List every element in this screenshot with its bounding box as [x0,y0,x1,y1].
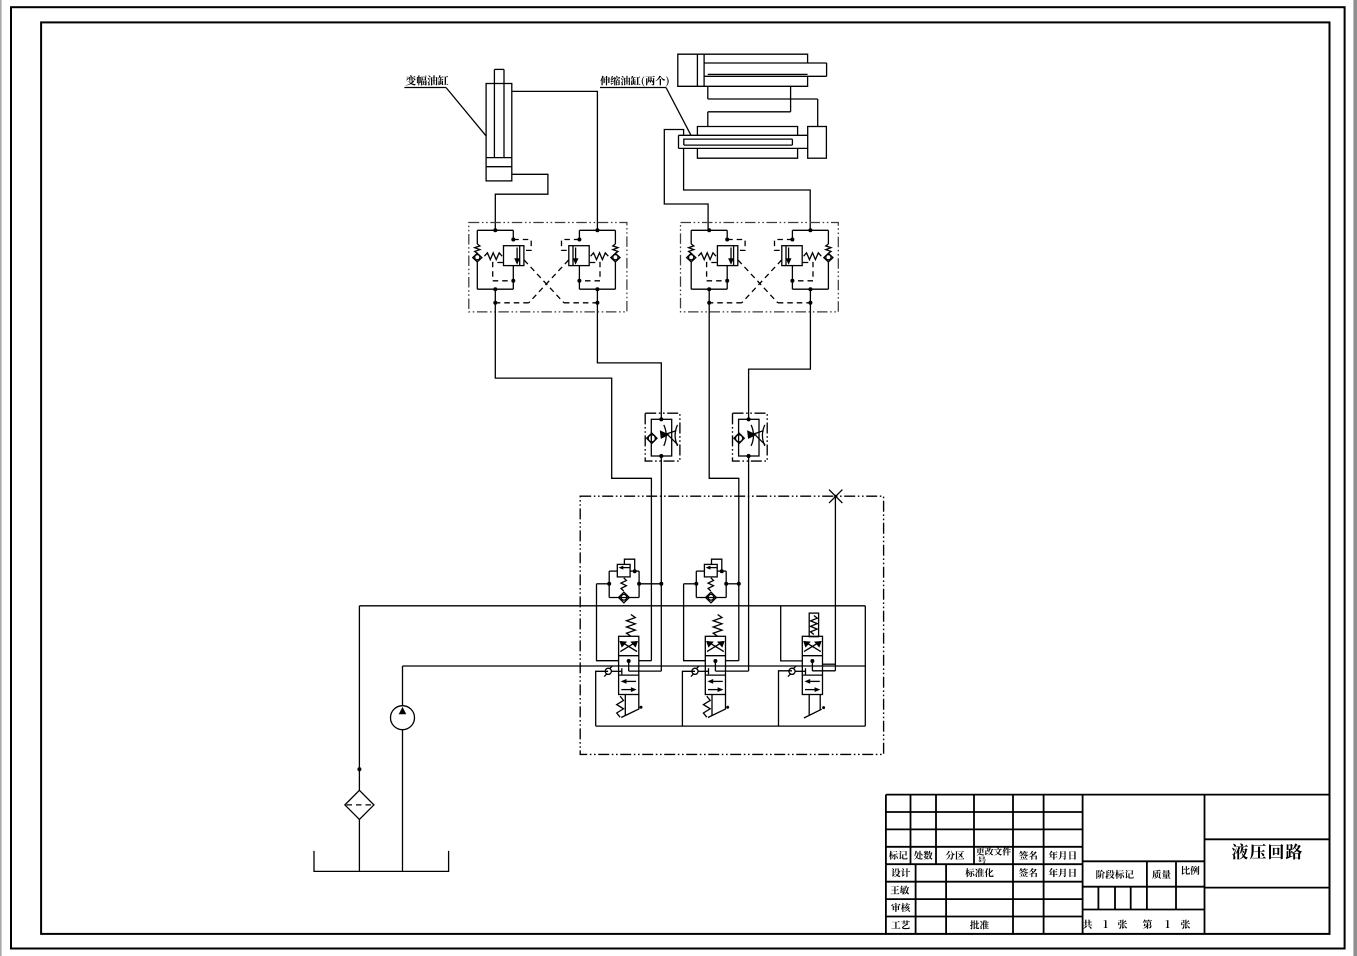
crossed pilot lines [524,260,564,303]
balance valve block (dash-dot enclosure) [681,223,839,312]
wire: block2 left output down to main box (valve2 A-line) [709,312,739,661]
title block table [886,795,1330,934]
junction dots [707,228,711,232]
directional spool valve at x=628.7 [619,636,639,694]
label 伸缩油缸(两个) with leader [600,76,691,136]
tank [314,851,449,872]
text: 更改文件 [976,847,1011,855]
relief feed line 2 [684,583,697,585]
text: 签名 [1019,868,1037,877]
filter [345,790,374,819]
valve1 brackets [597,584,619,661]
valve3 brackets [781,606,803,661]
text: 王敏 [891,886,910,895]
lower cylinder right cap block [808,127,827,159]
counterbalance valve unit at x=495.3 [477,229,513,231]
text: 质量 [1152,870,1171,879]
wire cyl1 rod-side port to balance block1 right input [512,91,598,230]
G_CYL1: luffing cylinder 变幅油缸 [486,69,512,180]
text: 标准化 [965,868,993,877]
wire: block2 right output to throttle 2 [749,312,811,419]
pump suction/pressure riser [402,730,404,872]
text: 分区 [946,851,965,860]
upper telescopic cylinder body [678,54,808,86]
text: 处数 [914,851,933,860]
text: 第 [1143,920,1152,929]
page edge gray strips [0,0,2,956]
text: 签名 [1019,851,1037,860]
directional spool valve at x=715.4 [705,636,725,694]
text: 设计 [891,868,910,877]
wire: block1 right output to throttle 1 [597,312,661,419]
text: 共 [1083,920,1092,929]
wire: block1 left output down to main box (valve1 A-line) [495,312,651,661]
counterbalance valve unit at x=709.2 [691,229,727,231]
line from X down to valve3 [834,496,836,671]
text: 审核 [891,903,910,912]
pilot relief valve assembly at x=623.7 [617,564,630,577]
wire: throttle1 down to relief feed / valve1 internal port [660,456,662,671]
text: 比例 [1182,866,1200,875]
crossed pilot lines [738,260,778,303]
text: 年月日 [1049,851,1076,860]
piston [486,157,512,159]
text: 伸缩油缸(两个) [600,76,669,87]
throttle/check valve unit at x=748.6 [733,413,768,461]
pressure rail [403,665,866,667]
text: 标记 [889,851,908,860]
upper rod extending right [704,62,827,64]
lower telescopic cylinder body [697,127,797,159]
text: 1 [1166,920,1170,928]
text: 工艺 [891,920,910,929]
pump [391,706,415,730]
wire cyl2 rod port to balance block2 left input [664,130,708,231]
cylinder body [486,84,512,181]
text: 液压回路 [1232,844,1302,860]
text: 1 [1104,920,1108,928]
lower rod extending left [679,134,808,136]
text: 年月日 [1049,868,1076,877]
wire cyl2 bottom port to balance block2 right input [684,148,811,230]
G_CYL2: telescopic cylinders 伸缩油缸(两个) [678,54,827,158]
text: 张 [1181,920,1190,929]
filter return line [358,606,360,791]
return riser right [864,606,866,726]
counterbalance valve unit at x=810.4 [792,229,828,231]
valve2 brackets [684,584,706,661]
tank rail (bottom) [596,725,866,727]
text: 张 [1118,920,1127,929]
junction dots [493,228,497,232]
text: 批准 [970,920,989,929]
wire: throttle2 down to valve2 internal port [748,456,750,671]
text: 变幅油缸 [406,75,449,85]
throttle/check valve unit at x=661.3 [645,413,680,461]
plugged port X mark [829,490,842,504]
label 变幅油缸 with leader [404,75,486,136]
directional spool valve at x=812.4 [802,636,822,694]
main valve manifold (dash-dot enclosure) [580,496,883,754]
text: 阶段标记 [1096,870,1134,879]
return rail (top) [359,605,865,607]
relief feed line 1 [597,583,610,585]
inter-cylinder links [707,86,709,99]
text: 号 [978,856,986,864]
counterbalance valve unit at x=597.4 [579,229,615,231]
balance valve block (dash-dot enclosure) [469,223,627,312]
piston rod [493,69,495,157]
pilot relief valve assembly at x=710.8 [704,564,717,577]
wire cyl1 bottom port to balance block1 left input [495,174,548,230]
